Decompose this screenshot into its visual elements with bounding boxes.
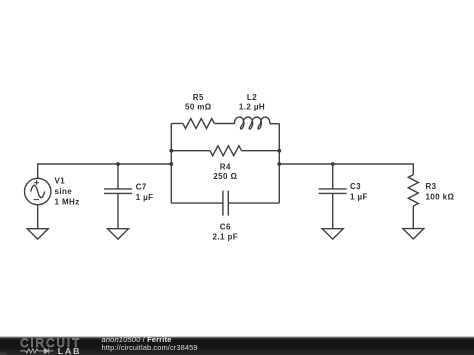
svg-text:C7: C7 — [136, 182, 147, 191]
svg-text:L2: L2 — [247, 93, 257, 102]
svg-text:C3: C3 — [350, 182, 361, 191]
svg-text:http://circuitlab.com/cr38459: http://circuitlab.com/cr38459 — [102, 343, 198, 352]
wire: top branch left — [171, 123, 183, 125]
svg-text:50 mΩ: 50 mΩ — [185, 102, 212, 111]
svg-text:V1: V1 — [55, 177, 66, 186]
ground (V1) — [27, 229, 48, 239]
wire: V1 top to left node — [38, 164, 172, 178]
junction C3/main — [331, 162, 335, 166]
capacitor C6 — [223, 191, 228, 216]
svg-text:R5: R5 — [193, 93, 204, 102]
svg-text:100 kΩ: 100 kΩ — [426, 192, 455, 201]
capacitor C3 — [319, 164, 347, 229]
wire: R4 branch left — [171, 150, 210, 152]
ground (C3) — [322, 229, 343, 239]
svg-text:sine: sine — [55, 187, 73, 196]
wire: C6 branch left — [171, 202, 223, 204]
logo doodle wire 3 — [49, 350, 54, 352]
junction right node main — [277, 162, 281, 166]
svg-text:R4: R4 — [220, 163, 231, 172]
svg-text:2.1 pF: 2.1 pF — [213, 233, 239, 242]
junction left node R4 — [169, 149, 173, 153]
svg-text:1 µF: 1 µF — [136, 193, 154, 202]
node left vertical — [170, 124, 172, 204]
svg-text:LAB: LAB — [58, 346, 82, 355]
svg-text:R3: R3 — [426, 182, 437, 191]
ground (R3) — [403, 229, 424, 239]
svg-text:1 MHz: 1 MHz — [55, 197, 80, 206]
logo doodle diode — [44, 348, 48, 353]
logo doodle wire — [20, 348, 53, 353]
wire: R4 branch right — [242, 150, 280, 152]
inductor L2 — [234, 117, 270, 129]
voltage source V1 — [25, 178, 51, 204]
ground (C7) — [108, 229, 129, 239]
wire: L2 to right node — [270, 123, 279, 125]
junction left node main — [169, 162, 173, 166]
resistor R3 — [408, 175, 418, 206]
svg-text:1 µF: 1 µF — [350, 192, 368, 201]
wire: C6 branch right — [228, 202, 279, 204]
resistor R5 — [183, 119, 214, 129]
wire: R3 bottom to ground — [412, 206, 414, 229]
logo doodle resistor — [26, 349, 38, 353]
node right vertical — [278, 124, 280, 204]
wire: V1 bottom to ground — [37, 205, 39, 229]
resistor R4 — [210, 146, 241, 156]
capacitor C7 — [104, 164, 132, 229]
svg-text:250 Ω: 250 Ω — [213, 172, 237, 181]
footer corner artifact — [0, 352, 7, 355]
junction right node R4 — [277, 149, 281, 153]
wire: R5 to L2 — [214, 123, 234, 125]
logo doodle wire 2 — [38, 350, 44, 352]
junction C7/main — [116, 162, 120, 166]
wire: main right to R3 — [279, 164, 413, 175]
svg-text:C6: C6 — [220, 222, 231, 231]
svg-text:1.2 µH: 1.2 µH — [239, 102, 265, 111]
footer bar — [0, 337, 474, 355]
